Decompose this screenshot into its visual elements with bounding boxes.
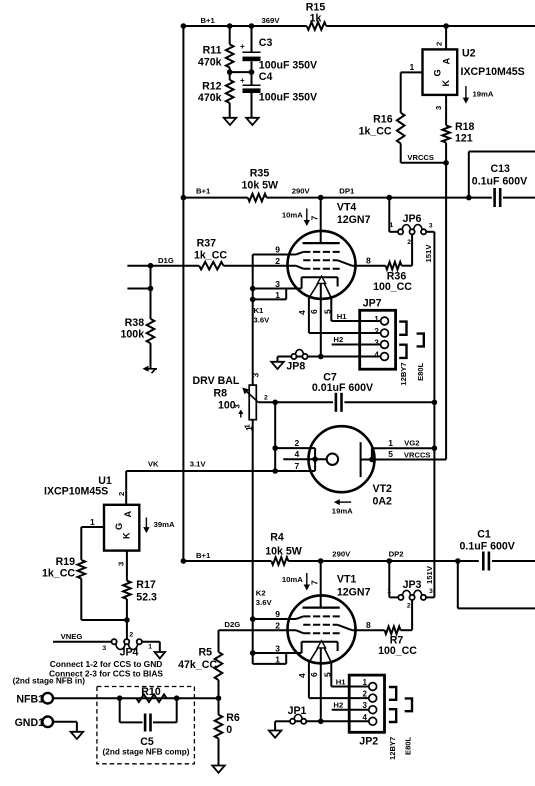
VT4 grid G3 row	[303, 251, 340, 253]
svg-text:2: 2	[129, 632, 133, 639]
svg-text:0: 0	[226, 724, 232, 736]
svg-text:VG2: VG2	[404, 439, 419, 448]
wire JP3 pin2 to R7	[411, 600, 413, 630]
resistor R16	[359, 113, 405, 144]
terminal GND1	[15, 717, 53, 729]
wire R6 to ground	[218, 739, 220, 766]
wire R5 to NFB node	[216, 680, 222, 715]
ground arrow under R38	[143, 366, 158, 373]
VT4 heater	[309, 276, 331, 298]
label K2	[256, 589, 273, 608]
svg-text:3.6V: 3.6V	[256, 598, 273, 607]
svg-text:JP1: JP1	[288, 705, 307, 717]
wire B+1 vertical bus	[182, 26, 184, 561]
wire C7 right	[344, 400, 437, 406]
svg-text:3: 3	[251, 373, 261, 378]
potentiometer R8 DRV BAL	[193, 373, 261, 432]
svg-text:E80L: E80L	[404, 736, 413, 755]
wire VNEG	[53, 632, 112, 642]
bracket JP7 tube choice mid	[417, 334, 424, 347]
svg-text:8: 8	[366, 256, 371, 266]
resistor R10	[136, 686, 166, 702]
svg-text:47k_CC: 47k_CC	[178, 659, 217, 671]
svg-text:2: 2	[275, 256, 280, 266]
svg-text:290V: 290V	[332, 550, 351, 559]
svg-text:D1G: D1G	[158, 256, 174, 265]
jumper JP4	[102, 632, 152, 659]
wire VT1 pin4 to JP2 pin2	[309, 697, 369, 699]
label 151V lower	[425, 565, 434, 584]
op-amp U2 IXCP10M45S box	[423, 48, 525, 95]
svg-text:B+1: B+1	[196, 187, 211, 196]
wire C1 output loop	[455, 558, 535, 608]
wire R16 to VRCCS	[401, 143, 446, 162]
resistor R12	[198, 80, 234, 104]
wire R38 top	[150, 289, 152, 319]
svg-text:1: 1	[90, 517, 95, 527]
wire JP1 to JP2 pin4	[295, 719, 369, 725]
wire H1 VT4 pin5 to JP7 pin1	[331, 312, 380, 321]
current arrow 10mA VT4	[282, 209, 310, 227]
wire VT1 pin6 heater	[309, 648, 321, 721]
VT1 cathode	[302, 642, 338, 653]
wire R38 stub	[127, 266, 153, 292]
svg-text:JP8: JP8	[286, 360, 305, 372]
capacitor C1	[458, 529, 535, 571]
current arrow 10mA VT1	[282, 573, 310, 591]
ground at JP1	[269, 731, 282, 738]
svg-text:DRV BAL: DRV BAL	[193, 375, 240, 387]
svg-text:3: 3	[233, 404, 242, 408]
svg-text:12BY7: 12BY7	[399, 362, 408, 385]
jumper JP1	[288, 705, 307, 724]
ground under R12	[224, 118, 237, 125]
capacitor C7	[312, 372, 373, 412]
svg-text:10mA: 10mA	[282, 211, 303, 220]
svg-text:R17: R17	[136, 579, 156, 591]
resistor R37	[194, 238, 227, 270]
capacitor C4	[240, 71, 317, 104]
tube VT2 0A2 envelope	[309, 426, 393, 507]
wire JP6 pin2 to R36	[411, 234, 413, 265]
VT1 heater	[309, 641, 331, 663]
svg-text:+: +	[240, 42, 245, 51]
svg-text:100uF 350V: 100uF 350V	[259, 60, 317, 72]
svg-text:JP2: JP2	[359, 736, 378, 748]
svg-text:NFB1: NFB1	[16, 693, 44, 705]
svg-text:100_CC: 100_CC	[373, 281, 412, 293]
wire C7 left	[272, 400, 333, 406]
wire H2 stub to JP2 pin3	[332, 700, 369, 709]
svg-text:3: 3	[275, 279, 280, 289]
wire U1 pin2	[117, 471, 126, 505]
svg-text:GND1: GND1	[15, 717, 45, 729]
wire VT2 pin7	[275, 461, 315, 471]
svg-text:100_CC: 100_CC	[378, 645, 417, 657]
tube VT1 12GN7 envelope	[288, 573, 371, 663]
resistor R38	[121, 317, 155, 343]
wire C4 to ground	[251, 93, 253, 118]
wire VT4 pin4 heater	[297, 298, 309, 333]
svg-text:IXCP10M45S: IXCP10M45S	[461, 66, 525, 78]
ground at JP8	[271, 362, 284, 369]
wire U2 pin1 to R16	[401, 72, 423, 112]
svg-text:VT4: VT4	[337, 201, 357, 213]
VT2 left bar	[312, 448, 318, 471]
svg-text:10k 5W: 10k 5W	[242, 179, 279, 191]
ground at GND1	[71, 732, 84, 739]
svg-text:52.3: 52.3	[136, 592, 157, 604]
wire VT1 pin1	[253, 653, 287, 664]
capacitor C5 branch	[120, 698, 177, 722]
wire JP3 pin1 to DP2	[389, 561, 398, 597]
svg-text:Connect 1-2 for CCS to GND: Connect 1-2 for CCS to GND	[50, 659, 163, 669]
svg-text:3.6V: 3.6V	[254, 316, 271, 325]
current arrow 19mA U2	[463, 86, 494, 104]
svg-text:JP6: JP6	[403, 213, 422, 225]
svg-text:JP4: JP4	[120, 647, 139, 659]
jumper JP6	[390, 213, 433, 246]
svg-text:C13: C13	[491, 163, 511, 175]
capacitor C5	[140, 714, 154, 749]
svg-text:JP3: JP3	[403, 579, 422, 591]
wire VT1 pin9	[250, 609, 303, 622]
svg-text:2: 2	[407, 239, 411, 246]
svg-text:VK: VK	[148, 459, 159, 468]
wire VT4 pin4 to JP7 pin2	[309, 332, 381, 334]
wire GND1 to ground	[53, 722, 77, 732]
op-amp U1 IXCP10M45S box	[44, 475, 139, 551]
svg-text:7: 7	[310, 216, 320, 221]
svg-text:5: 5	[322, 309, 332, 314]
svg-text:(2nd stage NFB comp): (2nd stage NFB comp)	[103, 748, 190, 757]
wire VT1 pin8 screen	[338, 620, 385, 630]
svg-text:0A2: 0A2	[373, 496, 393, 508]
svg-text:3: 3	[374, 339, 379, 348]
wire VT4 pin5 heater	[322, 298, 332, 321]
svg-text:1k_CC: 1k_CC	[194, 250, 227, 262]
svg-text:R18: R18	[455, 121, 475, 133]
svg-text:K2: K2	[256, 589, 266, 598]
svg-text:R8: R8	[214, 388, 228, 400]
svg-text:DP2: DP2	[389, 550, 404, 559]
svg-text:4: 4	[295, 449, 300, 459]
VT1 grid G2 row	[303, 624, 337, 626]
node VT1 plate	[318, 558, 324, 564]
svg-text:9: 9	[275, 609, 280, 619]
svg-text:G: G	[432, 69, 442, 76]
svg-text:R11: R11	[203, 45, 222, 57]
svg-text:5: 5	[322, 672, 332, 677]
svg-text:VT2: VT2	[373, 483, 393, 495]
svg-text:2: 2	[117, 492, 126, 496]
svg-text:E80L: E80L	[416, 362, 425, 381]
resistor R6	[215, 712, 240, 739]
svg-text:B+1: B+1	[196, 551, 211, 560]
svg-text:1: 1	[275, 654, 280, 664]
wire VT1 pin3	[250, 643, 302, 655]
svg-text:2: 2	[264, 395, 268, 402]
wire VT4 pin6 heater	[309, 283, 321, 356]
capacitor C13	[469, 163, 535, 207]
wire R11-R12 junction	[227, 68, 254, 80]
svg-text:K: K	[122, 532, 132, 539]
svg-text:1k: 1k	[310, 13, 322, 25]
svg-text:C1: C1	[477, 529, 491, 541]
svg-text:19mA: 19mA	[473, 90, 494, 99]
svg-text:0.01uF 600V: 0.01uF 600V	[312, 382, 373, 394]
wire D2G corner	[218, 630, 220, 652]
wire R17 to JP4	[124, 599, 130, 640]
node DP1 branch	[387, 195, 393, 201]
wire U2 pin3	[434, 95, 446, 126]
svg-text:0.1uF 600V: 0.1uF 600V	[472, 176, 527, 188]
svg-text:H2: H2	[333, 335, 343, 344]
wire D1G	[127, 256, 296, 269]
wire R8 bottom to VT1 cathode	[252, 420, 254, 664]
svg-text:VRCCS: VRCCS	[407, 153, 434, 162]
VT2 cathode bar	[360, 442, 362, 477]
capacitor C3	[240, 37, 317, 72]
wire NFB1 to R5/R6 node	[53, 695, 219, 701]
wire DP1 rail	[181, 187, 469, 201]
svg-text:VT1: VT1	[337, 573, 357, 585]
jumper JP3	[387, 579, 433, 610]
wire R19 bottom	[81, 579, 127, 621]
svg-text:R10: R10	[141, 686, 161, 698]
svg-text:H1: H1	[336, 678, 347, 687]
wire VT4 pin1	[250, 289, 286, 303]
svg-text:10k 5W: 10k 5W	[265, 546, 302, 558]
wire D2G VT1 pin2	[219, 620, 304, 633]
svg-text:2: 2	[374, 327, 379, 336]
svg-text:A: A	[123, 511, 133, 518]
wire DP2 rail	[181, 551, 458, 564]
bracket JP7 tube choice 2	[399, 345, 406, 358]
svg-text:R35: R35	[250, 168, 270, 180]
label 2nd stage NFB comp	[103, 748, 190, 757]
svg-text:19mA: 19mA	[332, 507, 353, 516]
wire U1 pin3	[117, 551, 127, 581]
wire U1 pin1 to R19	[81, 527, 104, 560]
svg-text:H2: H2	[333, 700, 343, 709]
VT1 grid G3 row	[303, 615, 340, 617]
label E80L JP2	[404, 736, 413, 755]
svg-text:IXCP10M45S: IXCP10M45S	[44, 486, 108, 498]
svg-text:100uF 350V: 100uF 350V	[259, 92, 317, 104]
svg-text:1: 1	[388, 438, 393, 448]
svg-text:R12: R12	[202, 81, 222, 93]
wire VT4 cathode bus	[252, 255, 254, 386]
wire VT1 plate pin7	[310, 561, 321, 608]
wire JP6 pin3	[426, 231, 434, 233]
svg-text:R19: R19	[56, 556, 76, 568]
wire VT2 pin2	[275, 438, 315, 448]
resistor R7	[378, 626, 417, 657]
label K1	[254, 306, 271, 325]
svg-text:39mA: 39mA	[154, 520, 175, 529]
wire VK	[126, 459, 275, 471]
svg-text:C5: C5	[140, 736, 154, 748]
svg-text:2: 2	[275, 621, 280, 631]
label VRCCS net	[407, 153, 434, 162]
svg-text:151V: 151V	[424, 244, 433, 263]
svg-text:2: 2	[295, 438, 300, 448]
current arrow 39mA U1	[143, 518, 175, 534]
svg-text:12GN7: 12GN7	[337, 214, 371, 226]
connector JP2	[349, 675, 384, 747]
ground under C4	[246, 118, 259, 125]
svg-text:K: K	[441, 80, 451, 87]
svg-text:K1: K1	[254, 306, 265, 315]
svg-text:290V: 290V	[292, 187, 311, 196]
label connect notes	[49, 659, 163, 679]
wire C13 output loop	[466, 152, 535, 201]
svg-text:B+1: B+1	[201, 16, 216, 25]
wire VT1 pin5 heater	[322, 663, 332, 687]
wire 151V vertical	[424, 232, 435, 598]
svg-text:3: 3	[102, 645, 106, 652]
label E80L JP7	[416, 362, 425, 381]
wire R38 bottom	[150, 343, 152, 369]
svg-text:R4: R4	[270, 532, 284, 544]
resistor R36	[373, 262, 412, 293]
wire VT4 pin3	[250, 279, 302, 291]
VT1 grid G1 row	[303, 632, 340, 634]
R8 trim arrow	[233, 404, 252, 428]
wire JP6 pin1 to DP1	[389, 198, 398, 232]
svg-text:6: 6	[309, 309, 319, 314]
svg-text:1k_CC: 1k_CC	[359, 126, 392, 138]
svg-text:12GN7: 12GN7	[337, 587, 371, 599]
svg-text:151V: 151V	[425, 565, 434, 584]
resistor R11	[198, 44, 234, 68]
wire U2 pin2	[435, 26, 447, 49]
svg-text:100k: 100k	[121, 329, 145, 341]
wire JP3 pin3	[426, 596, 434, 598]
label DP1	[339, 187, 355, 196]
svg-text:470k: 470k	[198, 57, 222, 69]
bracket JP2 tube choice 1	[389, 687, 396, 700]
VT4 cathode	[302, 277, 338, 288]
wire VT4 pin2 grid	[275, 256, 303, 269]
svg-text:7: 7	[310, 580, 320, 585]
wire JP4 pin1 to ground	[142, 642, 160, 652]
svg-text:4: 4	[297, 673, 307, 678]
VT4 plate bar	[303, 242, 340, 244]
svg-text:8: 8	[366, 620, 371, 630]
wire JP8 to ground	[278, 357, 292, 362]
label 290V top	[292, 187, 311, 196]
svg-text:1: 1	[410, 62, 415, 72]
bracket JP7 tube choice 1	[399, 322, 406, 335]
svg-text:121: 121	[455, 133, 473, 145]
label 12BY7 JP7	[399, 362, 408, 385]
svg-text:2: 2	[407, 603, 411, 610]
wire VT2 pin5 VRCCS	[361, 449, 447, 462]
svg-text:3: 3	[429, 222, 433, 229]
wire JP8 to JP7 pin4	[297, 354, 381, 360]
svg-text:369V: 369V	[262, 16, 281, 25]
tube VT4 12GN7 envelope	[288, 201, 371, 299]
ground under R6	[212, 766, 225, 773]
label U2 pin1	[410, 62, 415, 72]
ground at JP4	[155, 652, 166, 658]
svg-text:3.1V: 3.1V	[190, 459, 207, 468]
wire R18 to VRCCS junction	[443, 143, 449, 166]
svg-text:DP1: DP1	[339, 187, 355, 196]
svg-text:+: +	[240, 76, 245, 85]
svg-text:10mA: 10mA	[282, 575, 303, 584]
bracket JP2 tube choice 2	[389, 709, 396, 722]
wire H2 stub to JP7 pin3	[332, 335, 381, 344]
svg-text:VRCCS: VRCCS	[404, 451, 431, 460]
label 2nd stage NFB in	[13, 676, 86, 685]
svg-text:(2nd stage NFB in): (2nd stage NFB in)	[13, 676, 86, 685]
svg-text:R37: R37	[197, 238, 217, 250]
svg-text:C3: C3	[259, 37, 273, 49]
resistor R35	[242, 168, 279, 202]
svg-text:R5: R5	[198, 647, 212, 659]
svg-text:3: 3	[275, 643, 280, 653]
svg-text:6: 6	[309, 672, 319, 677]
wire VT4 pin8 screen	[338, 256, 386, 266]
wire R12 to ground	[229, 103, 231, 118]
svg-text:1: 1	[374, 315, 379, 324]
svg-text:1: 1	[243, 424, 252, 429]
svg-text:1: 1	[275, 290, 280, 300]
wire VRCCS vertical bus	[445, 163, 447, 460]
svg-text:12BY7: 12BY7	[388, 737, 397, 760]
VT1 plate bar	[303, 606, 340, 608]
svg-text:C4: C4	[259, 71, 273, 83]
current arrow 19mA VT2	[332, 499, 353, 515]
VT4 grid G2 row	[303, 259, 337, 261]
svg-text:470k: 470k	[198, 92, 222, 104]
label U1 pin1	[90, 517, 95, 527]
resistor R4	[265, 532, 302, 565]
svg-text:2: 2	[435, 42, 444, 46]
svg-text:3: 3	[434, 106, 443, 110]
label 290V bottom	[332, 550, 351, 559]
svg-text:H1: H1	[337, 312, 348, 321]
svg-text:U2: U2	[462, 48, 476, 60]
svg-text:R6: R6	[226, 712, 240, 724]
svg-text:JP7: JP7	[363, 298, 382, 310]
svg-text:0.1uF 600V: 0.1uF 600V	[460, 541, 515, 553]
node DP2 branch	[387, 558, 393, 564]
svg-text:3: 3	[429, 588, 433, 595]
dashed NFB comp box	[97, 687, 194, 764]
svg-text:9: 9	[275, 245, 280, 255]
wire VT4 plate pin7	[310, 198, 321, 244]
wire VT2 pin4	[283, 449, 326, 459]
wire C3 top	[251, 26, 253, 52]
svg-text:7: 7	[295, 461, 300, 471]
svg-text:R38: R38	[125, 317, 145, 329]
connector JP7	[360, 298, 396, 370]
svg-text:3: 3	[117, 562, 126, 566]
wire C3-C4	[251, 61, 253, 85]
svg-text:1: 1	[148, 644, 152, 651]
wire JP1 to ground	[275, 721, 290, 730]
label 12BY7 JP2	[388, 737, 397, 760]
svg-text:4: 4	[374, 351, 379, 360]
wire VT1 pin4 heater	[297, 663, 309, 699]
wire H1 VT1 pin5 to JP2 pin1	[331, 678, 369, 687]
node B+1 top	[181, 16, 216, 29]
svg-text:4: 4	[297, 310, 307, 315]
